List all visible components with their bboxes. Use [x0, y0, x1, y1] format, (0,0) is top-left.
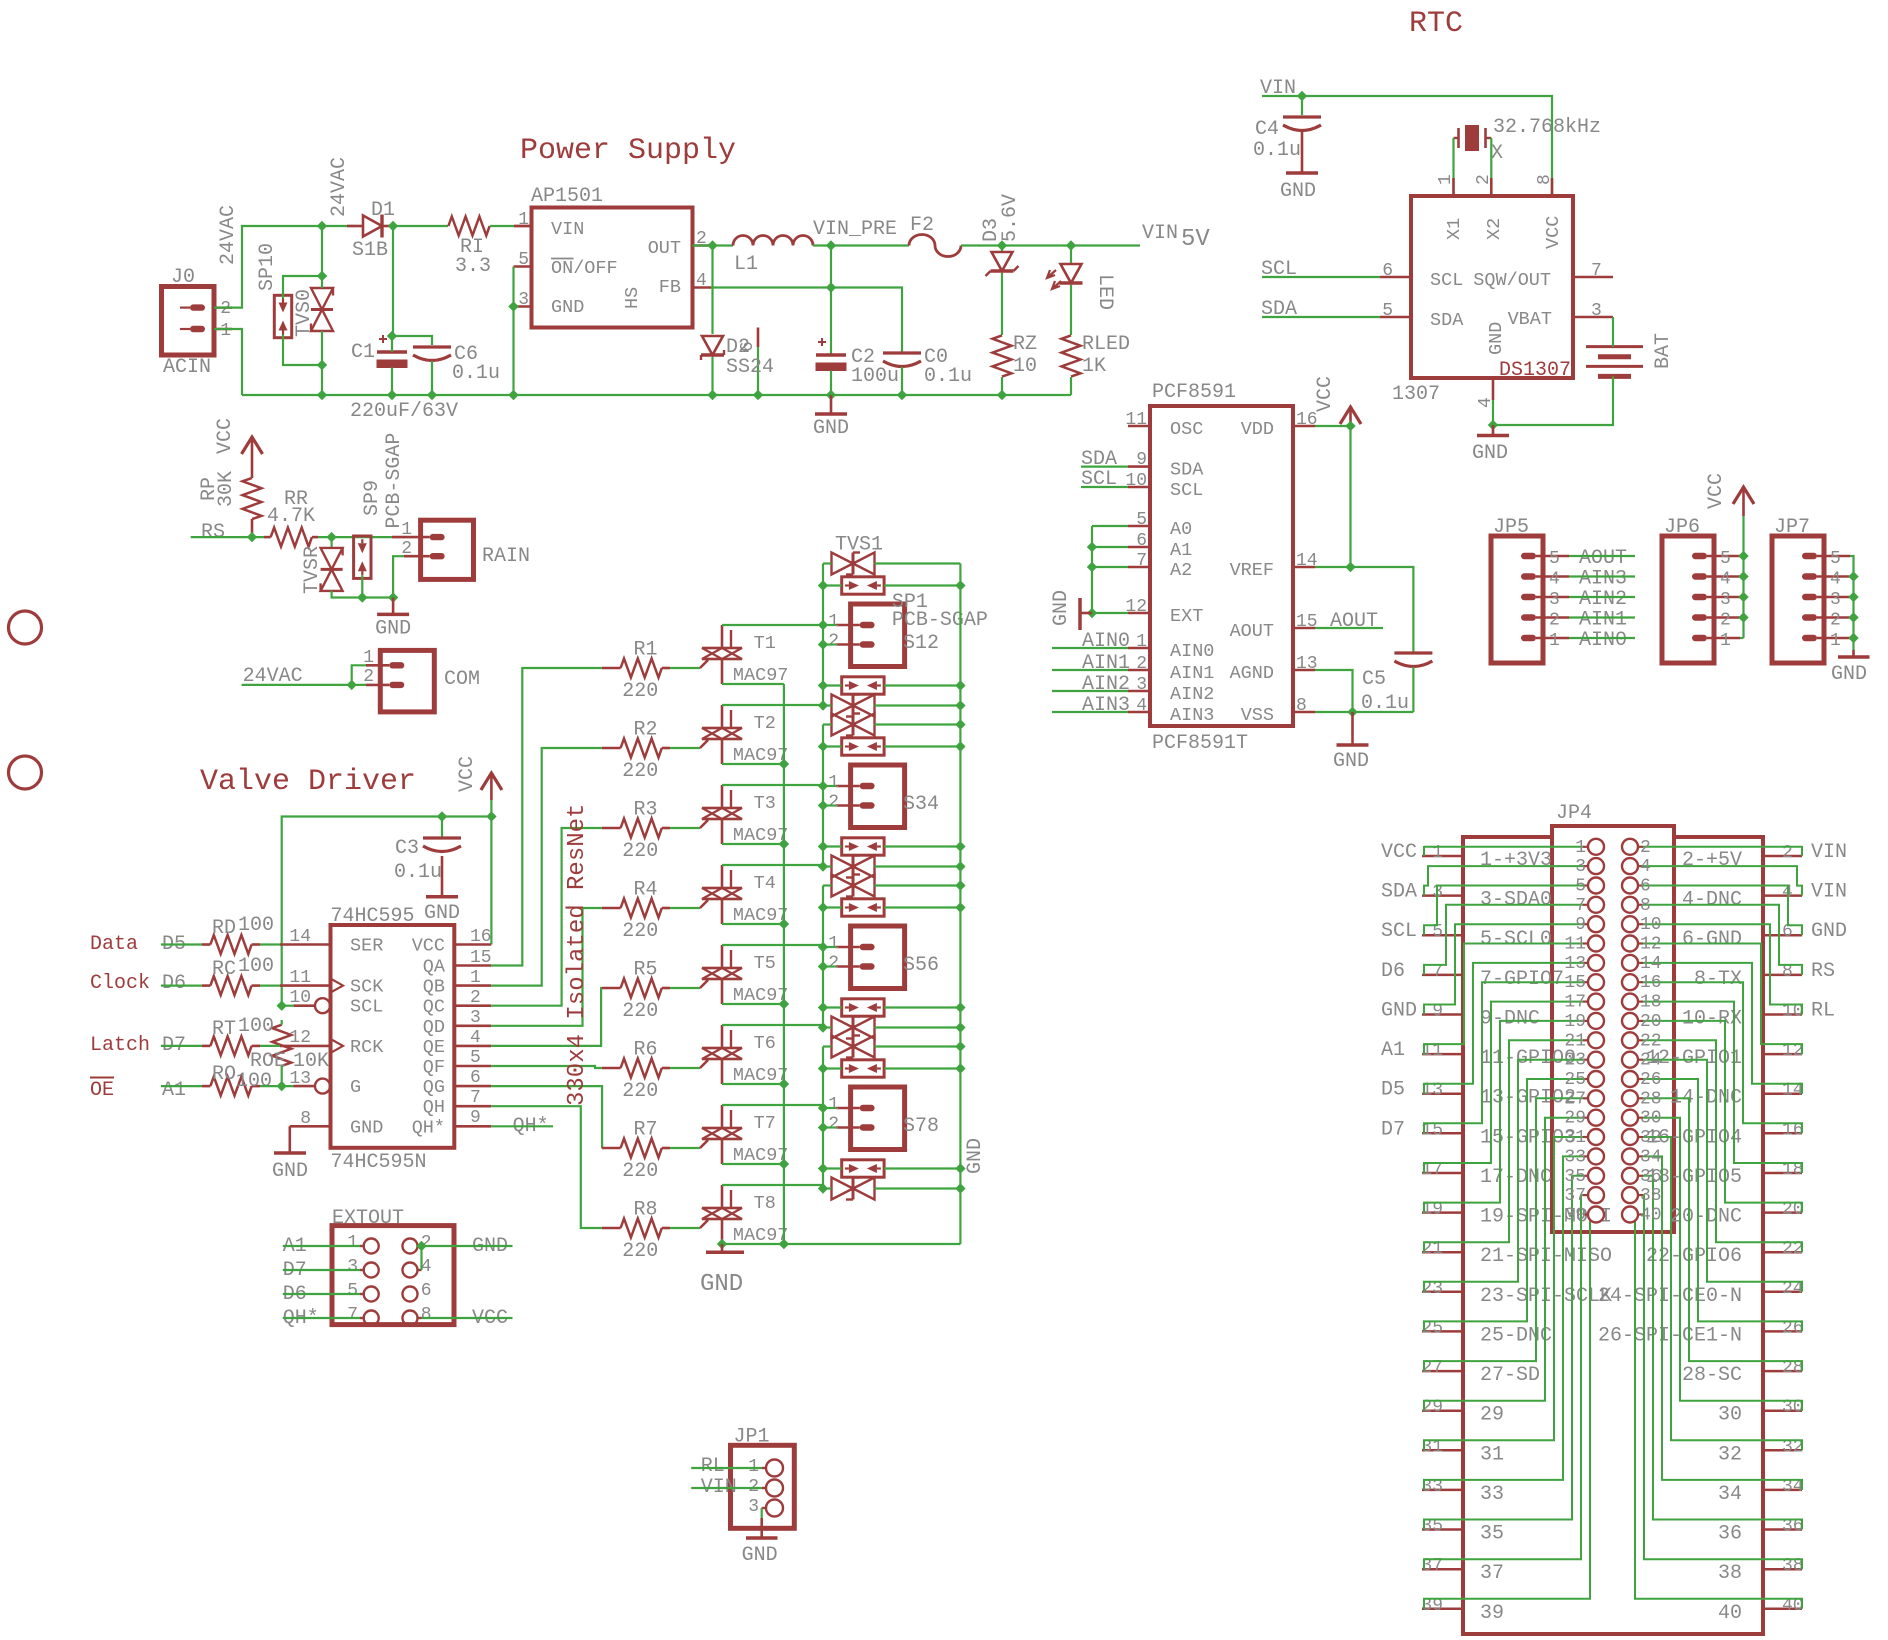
- wire QA to R1: [491, 668, 602, 966]
- svg-text:RT: RT: [212, 1018, 236, 1041]
- wire battery to ground node: [1493, 376, 1613, 425]
- wire DS1307 gnd pin down: [1492, 400, 1494, 425]
- svg-text:RS: RS: [201, 521, 225, 544]
- diode D1 S1B: [347, 225, 363, 228]
- svg-text:32: 32: [1640, 1128, 1662, 1148]
- wire QD to R4: [491, 908, 602, 1026]
- svg-text:23-SPI-SCLK: 23-SPI-SCLK: [1480, 1285, 1612, 1308]
- svg-text:R4: R4: [634, 879, 658, 902]
- wire right manifold of S78: [874, 1045, 960, 1047]
- wire A1 to RO: [161, 1085, 202, 1087]
- svg-text:25-DNC: 25-DNC: [1480, 1324, 1552, 1347]
- svg-text:VIN: VIN: [551, 219, 584, 240]
- svg-text:3: 3: [1575, 857, 1586, 877]
- pin 21 of JP4 outer (left): [1422, 1251, 1464, 1254]
- svg-text:QD: QD: [423, 1017, 445, 1038]
- svg-text:74HC595N: 74HC595N: [331, 1151, 427, 1174]
- svg-text:3: 3: [1830, 590, 1841, 610]
- wire R1 to T1 gate: [670, 667, 700, 669]
- svg-text:GND: GND: [1381, 1000, 1417, 1023]
- svg-text:27-SD: 27-SD: [1480, 1364, 1540, 1387]
- resistor RP 30K: [243, 478, 262, 519]
- fuse F2: [909, 235, 961, 257]
- svg-text:27: 27: [1564, 1089, 1586, 1109]
- svg-text:24-SPI-CE0-N: 24-SPI-CE0-N: [1598, 1285, 1742, 1308]
- pin 11 of 74HC595: [280, 984, 331, 987]
- svg-text:FB: FB: [659, 277, 681, 298]
- svg-text:220uF/63V: 220uF/63V: [350, 400, 458, 423]
- svg-text:AOUT: AOUT: [1230, 621, 1274, 642]
- wire SCL to DS1307: [1262, 276, 1380, 278]
- svg-text:10: 10: [1640, 915, 1662, 935]
- svg-text:5: 5: [470, 1048, 481, 1068]
- svg-text:11: 11: [289, 968, 311, 988]
- svg-text:QC: QC: [423, 997, 445, 1018]
- svg-text:R5: R5: [634, 959, 658, 982]
- svg-text:1: 1: [401, 520, 412, 540]
- svg-text:5: 5: [1830, 549, 1841, 569]
- ground symbol under C4: [1301, 131, 1304, 173]
- pin 2 of JP4 outer (right): [1762, 855, 1802, 858]
- svg-text:RCK: RCK: [350, 1037, 384, 1058]
- svg-text:1: 1: [1830, 631, 1841, 651]
- pin 7 of DS1307: [1573, 276, 1613, 279]
- svg-text:4: 4: [1549, 570, 1560, 590]
- wire 24VAC to COM: [242, 684, 366, 686]
- svg-text:24VAC: 24VAC: [328, 157, 351, 217]
- wire T7 MT2 to output node: [722, 1104, 823, 1106]
- svg-text:21-SPI-MISO: 21-SPI-MISO: [1480, 1245, 1612, 1268]
- JP4 header pads and pin numbers: [1588, 839, 1604, 855]
- svg-text:31: 31: [1480, 1443, 1504, 1466]
- inductor L1: [733, 236, 813, 246]
- svg-text:PCB-SGAP: PCB-SGAP: [383, 433, 406, 529]
- capacitor C6 0.1u: [413, 345, 451, 348]
- svg-text:8-TX: 8-TX: [1694, 968, 1742, 991]
- svg-text:MAC97: MAC97: [733, 665, 789, 686]
- pin 1 of AP1501: [514, 225, 532, 228]
- crystal X 32.768kHz: [1465, 125, 1479, 151]
- svg-text:GND: GND: [551, 297, 584, 318]
- pin 6 of AP1501: [757, 328, 760, 348]
- svg-text:14: 14: [1640, 954, 1662, 974]
- svg-text:220: 220: [622, 920, 658, 943]
- wire JP4 pin 33 to header: [1424, 1156, 1583, 1490]
- svg-text:VCC: VCC: [1314, 376, 1337, 412]
- LED symbol: [1070, 246, 1072, 265]
- wire QB to R2: [491, 748, 602, 986]
- pin 13 of JP4 outer (left): [1422, 1092, 1464, 1095]
- svg-text:RLED: RLED: [1082, 333, 1130, 356]
- svg-text:32.768kHz: 32.768kHz: [1493, 116, 1601, 139]
- pin 10 of 74HC595: [294, 1004, 316, 1007]
- svg-text:3: 3: [1591, 301, 1602, 321]
- wire SDA net: [1081, 466, 1128, 468]
- wire address pins tie to ground: [1092, 525, 1128, 527]
- wire left manifold of S12: [823, 562, 832, 564]
- svg-text:AIN3: AIN3: [1170, 705, 1214, 726]
- wire JP4 pin 8 to header: [1643, 905, 1802, 975]
- svg-text:F2: F2: [910, 214, 934, 237]
- wire JP4 pin 15 to header: [1424, 982, 1583, 1133]
- svg-text:0.1u: 0.1u: [394, 861, 442, 884]
- wire FB net: [711, 288, 902, 354]
- svg-text:RS: RS: [1811, 960, 1835, 983]
- wire LED to RLED: [1070, 285, 1072, 335]
- wire AP1501 HS pin to rail: [757, 347, 759, 395]
- ground symbol under JP1: [760, 1518, 763, 1538]
- power symbol VCC above JP6: [1733, 487, 1754, 504]
- svg-text:8: 8: [1640, 896, 1651, 916]
- svg-text:5: 5: [1575, 877, 1586, 897]
- svg-text:34: 34: [1640, 1147, 1662, 1167]
- svg-text:SCL: SCL: [1170, 480, 1203, 501]
- triac T5 MAC97: [702, 967, 742, 970]
- TVS diode pair top of S12: [832, 553, 854, 575]
- svg-text:26: 26: [1640, 1070, 1662, 1090]
- svg-text:13: 13: [1296, 654, 1318, 674]
- pin 10 of JP4 outer (right): [1762, 1013, 1802, 1016]
- wire RAIN pin2 to ground: [393, 556, 404, 597]
- connector JP1: [731, 1445, 795, 1528]
- ground symbol under RAIN: [392, 598, 395, 615]
- wire VDD to VCC: [1315, 425, 1351, 427]
- svg-text:36: 36: [1718, 1523, 1742, 1546]
- svg-text:TVS0: TVS0: [293, 289, 316, 337]
- wire D6 to RC: [161, 984, 202, 986]
- svg-text:1: 1: [828, 934, 839, 954]
- wire AGND to VSS node: [1315, 670, 1353, 712]
- TVS diode pair bottom of S12: [832, 695, 854, 717]
- svg-text:A1: A1: [1170, 540, 1192, 561]
- svg-text:5: 5: [1720, 549, 1731, 569]
- resistor RT 100: [202, 1045, 210, 1048]
- svg-text:6: 6: [470, 1068, 481, 1088]
- svg-text:6-GND: 6-GND: [1682, 928, 1742, 951]
- svg-text:30: 30: [1718, 1404, 1742, 1427]
- wire JP6 pins to VCC: [1742, 516, 1744, 638]
- pin 4 of DS1307: [1492, 378, 1495, 400]
- svg-text:7: 7: [470, 1088, 481, 1108]
- wire ground rail: [242, 394, 1071, 396]
- spark gap bottom of S12: [842, 677, 884, 694]
- pin 1 of 74HC595: [454, 984, 491, 987]
- svg-text:6: 6: [1640, 877, 1651, 897]
- wire JP4 pin 37 to header: [1424, 1195, 1583, 1569]
- svg-text:26-SPI-CE1-N: 26-SPI-CE1-N: [1598, 1324, 1742, 1347]
- pin 9 of JP4 outer (left): [1422, 1013, 1464, 1016]
- pin 15 of JP4 outer (left): [1422, 1132, 1464, 1135]
- ground symbol under C3: [441, 856, 444, 897]
- pin 4 of 74HC595: [454, 1045, 491, 1048]
- svg-text:GND: GND: [1472, 442, 1508, 465]
- pin 28 of JP4 outer (right): [1762, 1370, 1802, 1373]
- wire VIN to JP1 pin2: [691, 1487, 762, 1489]
- svg-text:A1: A1: [162, 1079, 186, 1102]
- svg-text:3-SDA0: 3-SDA0: [1480, 889, 1552, 912]
- pin 13 of 74HC595: [294, 1085, 316, 1088]
- svg-text:220: 220: [622, 760, 658, 783]
- svg-text:15: 15: [1296, 612, 1318, 632]
- pin 6 of 74HC595: [454, 1085, 491, 1088]
- svg-text:1K: 1K: [1082, 355, 1106, 378]
- svg-text:EXT: EXT: [1170, 606, 1203, 627]
- svg-text:SER: SER: [350, 936, 383, 957]
- svg-text:1: 1: [220, 321, 231, 341]
- TVS diode TVSR: [331, 537, 333, 548]
- svg-text:RO: RO: [212, 1063, 236, 1086]
- svg-text:SDA: SDA: [1381, 881, 1417, 904]
- wire JP4 pin 2 to header: [1643, 846, 1802, 856]
- resistor R3 220: [602, 827, 621, 830]
- svg-text:VDD: VDD: [1241, 419, 1274, 440]
- svg-text:T1: T1: [754, 633, 776, 654]
- power symbol VCC at valve driver: [481, 773, 502, 790]
- svg-text:100: 100: [238, 955, 274, 978]
- svg-text:D6: D6: [1381, 960, 1405, 983]
- wire VREF to C5: [1315, 567, 1413, 653]
- svg-text:12: 12: [289, 1028, 311, 1048]
- wire RLED to rail end: [1070, 377, 1072, 395]
- wire VIN_PRE net: [813, 244, 909, 246]
- wire D2 to rail: [711, 357, 713, 395]
- wire OUT net with junction: [693, 244, 734, 246]
- wire VCC distribution at top of 74HC595: [490, 800, 492, 817]
- svg-text:GND: GND: [1280, 180, 1316, 203]
- svg-text:VBAT: VBAT: [1508, 309, 1552, 330]
- pin 6 of PCF8591: [1128, 546, 1150, 549]
- wire left manifold of S56: [823, 884, 832, 886]
- svg-text:33: 33: [1480, 1483, 1504, 1506]
- svg-text:1: 1: [470, 968, 481, 988]
- ground symbol under DS1307: [1492, 425, 1495, 436]
- pin 8 of PCF8591: [1293, 711, 1315, 714]
- pin 2 of AP1501: [693, 244, 712, 247]
- svg-text:0.1u: 0.1u: [452, 362, 500, 385]
- svg-text:13: 13: [1564, 954, 1586, 974]
- svg-text:AIN3: AIN3: [1082, 694, 1130, 717]
- pin 7 of PCF8591: [1128, 566, 1150, 569]
- svg-text:2: 2: [1474, 174, 1494, 185]
- triac T6 MAC97: [702, 1047, 742, 1050]
- pin 15 of PCF8591: [1293, 627, 1315, 630]
- svg-text:9-DNC: 9-DNC: [1480, 1008, 1540, 1031]
- svg-text:25: 25: [1564, 1070, 1586, 1090]
- pin 12 of 74HC595: [280, 1045, 331, 1048]
- svg-text:VCC: VCC: [1705, 473, 1728, 509]
- wire T5 MT2 to output node: [722, 944, 823, 946]
- svg-text:2: 2: [470, 988, 481, 1008]
- wire SP9 bottom: [361, 575, 363, 597]
- connector S12: [851, 604, 905, 667]
- ic U1 PCF8591: [1150, 406, 1293, 726]
- pin 22 of JP4 outer (right): [1762, 1251, 1802, 1254]
- pin 26 of JP4 outer (right): [1762, 1330, 1802, 1333]
- svg-text:RL: RL: [701, 1455, 725, 1478]
- svg-text:C1: C1: [351, 341, 375, 364]
- wire QC to R3: [491, 828, 602, 1006]
- connector J0: [162, 287, 215, 356]
- pin 4 of JP4 outer (right): [1762, 894, 1802, 897]
- svg-text:J0: J0: [171, 266, 195, 289]
- svg-text:24VAC: 24VAC: [217, 205, 240, 265]
- svg-text:S1B: S1B: [352, 239, 388, 262]
- svg-text:GND: GND: [700, 1271, 743, 1298]
- svg-text:28: 28: [1640, 1089, 1662, 1109]
- pin 33 of JP4 outer (left): [1422, 1489, 1464, 1492]
- resistor R7 220: [602, 1147, 621, 1150]
- resistor R4 220: [602, 907, 621, 910]
- resistor RD 100: [202, 943, 210, 946]
- wire T2 MT1 down: [722, 763, 784, 765]
- wire JP4 pin 34 to header: [1643, 1156, 1802, 1490]
- pin 12 of PCF8591: [1128, 612, 1150, 615]
- triac T3 MAC97: [702, 807, 742, 810]
- ic 74HC595: [331, 925, 455, 1148]
- wire JP4 pin 4 to header: [1643, 866, 1802, 896]
- wire JP4 pin 10 to header: [1643, 924, 1802, 1014]
- pin 1 of PCF8591: [1128, 647, 1150, 650]
- wire D1 junction down to C1/C6: [393, 226, 432, 345]
- svg-text:X2: X2: [1484, 218, 1505, 240]
- svg-text:15: 15: [1564, 973, 1586, 993]
- wire JP4 pin 18 to header: [1643, 1002, 1802, 1173]
- svg-text:QH: QH: [423, 1097, 445, 1118]
- svg-text:2: 2: [363, 667, 374, 687]
- svg-text:1: 1: [363, 648, 374, 668]
- svg-text:JP7: JP7: [1774, 516, 1810, 539]
- wire C6 bottom to rail: [431, 361, 433, 395]
- wire JP7 pins to GND: [1850, 556, 1854, 650]
- pin 15 of 74HC595: [454, 964, 491, 967]
- wire SCL net: [1081, 486, 1128, 488]
- svg-text:29: 29: [1564, 1109, 1586, 1129]
- spark gap bottom of S78: [842, 1160, 884, 1177]
- svg-text:22-GPIO6: 22-GPIO6: [1646, 1245, 1742, 1268]
- svg-text:24: 24: [1640, 1051, 1662, 1071]
- pin 5 of PCF8591: [1128, 525, 1150, 528]
- resistor R6 220: [602, 1067, 621, 1070]
- pin 8 of JP4 outer (right): [1762, 974, 1802, 977]
- resistor ROE 10K: [272, 1025, 291, 1066]
- wire JP4 pin 3 to header: [1424, 866, 1583, 896]
- svg-text:7-GPIO7: 7-GPIO7: [1480, 968, 1564, 991]
- svg-text:15: 15: [470, 948, 492, 968]
- wire AOUT stub: [1315, 627, 1383, 629]
- svg-text:3: 3: [748, 1497, 759, 1517]
- svg-text:AIN1: AIN1: [1170, 663, 1214, 684]
- svg-text:S78: S78: [903, 1115, 939, 1138]
- svg-text:Valve Driver: Valve Driver: [200, 765, 416, 799]
- diode D2 SS24: [711, 246, 713, 335]
- svg-text:AIN1: AIN1: [1082, 652, 1130, 675]
- spark gap top of S34: [842, 738, 884, 755]
- svg-text:ON/OFF: ON/OFF: [551, 258, 618, 279]
- svg-text:100: 100: [238, 914, 274, 937]
- capacitor C5 0.1u: [1394, 651, 1432, 654]
- svg-text:12: 12: [1125, 597, 1147, 617]
- pin 5 of DS1307: [1380, 316, 1411, 319]
- wire T8 MT1 down to ground node: [721, 1243, 723, 1245]
- svg-text:1: 1: [828, 773, 839, 793]
- wire JP4 pin 17 to header: [1424, 1002, 1583, 1173]
- wire JP4 pin 19 to header: [1424, 1021, 1583, 1213]
- svg-text:1: 1: [518, 210, 529, 230]
- connector JP7: [1772, 536, 1824, 663]
- svg-text:L1: L1: [734, 253, 758, 276]
- svg-text:G: G: [350, 1077, 361, 1098]
- pin 24 of JP4 outer (right): [1762, 1291, 1802, 1294]
- wire R5 to T5 gate: [670, 987, 700, 989]
- svg-text:9: 9: [1136, 450, 1147, 470]
- svg-text:AIN0: AIN0: [1170, 641, 1214, 662]
- wire SP10 bottom: [283, 335, 322, 366]
- wire JP4 pin 39 to header: [1424, 1215, 1590, 1609]
- connector outer breakout box of JP4: [1463, 837, 1763, 1634]
- wire R6 to T6 gate: [670, 1067, 700, 1069]
- wire JP4 pin 1 to header: [1424, 846, 1583, 856]
- svg-text:X1: X1: [1444, 218, 1465, 240]
- svg-text:OSC: OSC: [1170, 419, 1203, 440]
- svg-text:1: 1: [1549, 631, 1560, 651]
- svg-text:T4: T4: [754, 873, 776, 894]
- TVS diode pair bottom of S34: [832, 856, 854, 878]
- wire RL to JP1 pin1: [691, 1467, 762, 1469]
- svg-text:GND: GND: [350, 1117, 383, 1138]
- ground symbol under T8: [721, 1244, 724, 1252]
- wire 24VAC net from J0 pin2 to D1 anode: [214, 226, 355, 308]
- svg-text:38: 38: [1640, 1186, 1662, 1206]
- svg-text:16: 16: [1640, 973, 1662, 993]
- svg-text:4: 4: [696, 271, 707, 291]
- svg-text:GND: GND: [1486, 322, 1507, 355]
- svg-text:S34: S34: [903, 793, 939, 816]
- svg-text:23: 23: [1564, 1051, 1586, 1071]
- svg-text:VCC: VCC: [1381, 841, 1417, 864]
- wire RC to pin 11: [260, 984, 281, 986]
- svg-text:100: 100: [236, 1070, 272, 1093]
- svg-text:C5: C5: [1362, 668, 1386, 691]
- svg-text:31: 31: [1564, 1128, 1586, 1148]
- svg-text:VIN: VIN: [1811, 881, 1847, 904]
- pin 29 of JP4 outer (left): [1422, 1409, 1464, 1412]
- svg-text:3: 3: [1136, 675, 1147, 695]
- svg-text:R8: R8: [634, 1199, 658, 1222]
- wire ROE to pin13 node: [281, 1020, 283, 1025]
- ground symbol under PCF8591: [1351, 712, 1354, 745]
- svg-text:1: 1: [828, 612, 839, 632]
- pin 20 of JP4 outer (right): [1762, 1211, 1802, 1214]
- svg-text:AGND: AGND: [1230, 663, 1274, 684]
- wire QH* stub: [491, 1125, 553, 1127]
- svg-text:19: 19: [1564, 1012, 1586, 1032]
- svg-text:0.1u: 0.1u: [1253, 139, 1301, 162]
- wire pin8 to ground: [290, 1125, 331, 1128]
- svg-text:220: 220: [622, 1080, 658, 1103]
- wire VIN_PRE down to C2: [830, 246, 832, 356]
- svg-text:VIN_PRE: VIN_PRE: [813, 218, 897, 241]
- svg-text:1: 1: [347, 1233, 358, 1253]
- pin 31 of JP4 outer (left): [1422, 1449, 1464, 1452]
- TVS diode pair top of S56: [832, 875, 854, 897]
- svg-text:38: 38: [1718, 1562, 1742, 1585]
- pin 4 of AP1501: [693, 286, 712, 289]
- pin 23 of JP4 outer (left): [1422, 1291, 1464, 1294]
- svg-text:HS: HS: [622, 287, 643, 309]
- svg-text:VSS: VSS: [1241, 705, 1274, 726]
- ground symbol under JP7: [1852, 650, 1855, 657]
- pin 39 of JP4 outer (left): [1422, 1608, 1464, 1611]
